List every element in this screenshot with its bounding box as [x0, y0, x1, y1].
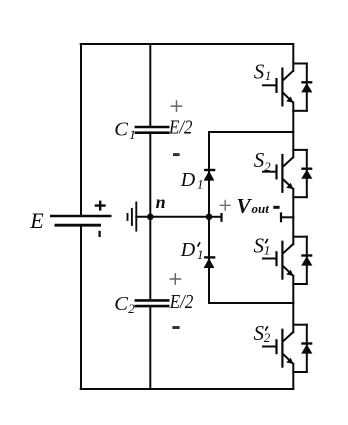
- IGBT S2p: [262, 329, 293, 368]
- freewheel diode branch of S2: [293, 150, 307, 197]
- diode D1: [204, 170, 216, 181]
- polarity minus Vout: [273, 206, 279, 209]
- svg-text:2: 2: [264, 330, 271, 345]
- IGBT S1p: [262, 241, 293, 280]
- wire rail segment S1p to S2p: [292, 276, 294, 333]
- svg-text:1: 1: [129, 127, 136, 142]
- freewheel diode branch of S2p: [293, 325, 307, 372]
- svg-text:E/2: E/2: [168, 117, 192, 139]
- wire rail segment top bus to S1: [292, 44, 294, 71]
- emitter arrow S2p: [286, 358, 293, 364]
- svg-text:1: 1: [197, 177, 204, 192]
- capacitor C1: [135, 127, 170, 133]
- svg-text:E/2: E/2: [169, 291, 193, 313]
- ground at node n: [128, 202, 137, 232]
- wire D1 branch vertical: [208, 132, 210, 217]
- svg-text:1: 1: [197, 247, 204, 262]
- freewheel diode DS1: [301, 82, 312, 92]
- svg-text:D: D: [180, 169, 196, 191]
- svg-text:S: S: [254, 59, 265, 83]
- terminal tick Vout minus: [280, 212, 282, 222]
- polarity plus Vout: [220, 200, 231, 211]
- polarity plus C2: [170, 273, 182, 285]
- wire bottom bus: [81, 388, 294, 390]
- freewheel diode DS1p: [301, 256, 312, 266]
- freewheel diode DS2p: [301, 344, 312, 354]
- svg-text:1: 1: [265, 68, 272, 83]
- polarity minus C1: [173, 153, 180, 156]
- emitter arrow S2: [286, 183, 293, 189]
- wire rail segment S2 to S1p: [292, 189, 294, 244]
- svg-text:V: V: [237, 194, 253, 218]
- svg-text:E: E: [29, 208, 44, 233]
- svg-text:2: 2: [264, 159, 271, 174]
- wire clamp upper horizontal (D1 top to rail): [209, 131, 293, 133]
- freewheel diode DS2: [301, 169, 312, 179]
- emitter arrow S1: [286, 97, 293, 103]
- wire capacitor leg middle (C1 to C2 through node n): [149, 134, 151, 301]
- node junction dot at clamp midpoint: [206, 214, 213, 221]
- wire rail segment S2p to bottom bus: [292, 364, 294, 389]
- wire left lower (battery to bottom): [80, 227, 82, 389]
- svg-text:C: C: [114, 119, 128, 141]
- wire clamp lower horizontal (D1p bottom to rail): [209, 302, 293, 304]
- wire capacitor leg upper (top bus to C1): [149, 44, 151, 126]
- diode D1p: [204, 257, 216, 268]
- svg-text:2: 2: [128, 301, 135, 316]
- terminal tick Vout plus: [220, 213, 222, 222]
- emitter arrow S1p: [286, 270, 293, 276]
- svg-text:1: 1: [264, 243, 271, 258]
- polarity minus C2: [172, 326, 179, 329]
- freewheel diode branch of S1p: [293, 237, 307, 284]
- wire capacitor leg lower (C2 to bottom bus): [149, 307, 151, 390]
- svg-text:out: out: [252, 201, 270, 216]
- wire node n horizontal: [150, 216, 209, 218]
- battery source E: [50, 201, 112, 237]
- polarity plus C1: [171, 100, 183, 112]
- IGBT S2: [262, 154, 293, 193]
- wire D1p branch vertical: [208, 217, 210, 303]
- wire left upper (E+ to battery): [80, 44, 82, 215]
- wire ground connector: [136, 216, 150, 218]
- node n junction dot: [147, 214, 154, 221]
- freewheel diode branch of S1: [293, 64, 307, 111]
- svg-text:n: n: [156, 192, 166, 212]
- svg-text:C: C: [114, 293, 128, 315]
- capacitor C2: [135, 300, 170, 306]
- svg-text:S: S: [254, 148, 265, 172]
- svg-text:D: D: [180, 239, 196, 261]
- wire top bus: [81, 43, 294, 45]
- wire rail segment S1 to S2: [292, 103, 294, 158]
- IGBT S1: [262, 68, 293, 107]
- wire Vout minus stub: [281, 216, 293, 218]
- wire Vout plus stub: [209, 216, 222, 218]
